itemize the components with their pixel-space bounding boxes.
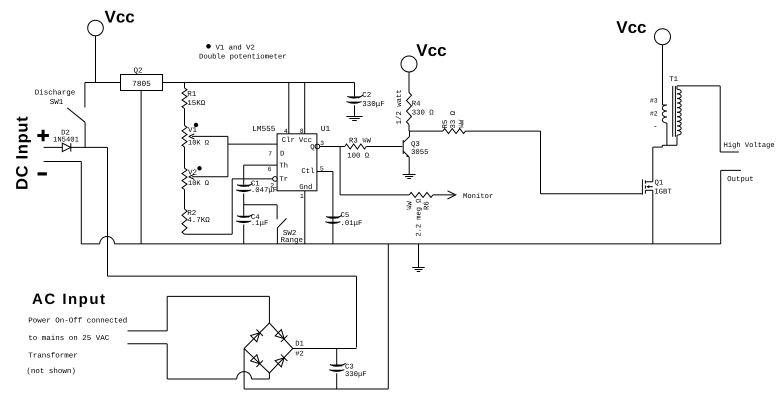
svg-text:High Voltage: High Voltage	[724, 141, 775, 150]
label pins Clr Vcc	[282, 136, 312, 145]
svg-text:8: 8	[300, 128, 304, 135]
label T1 pin 2	[650, 110, 658, 117]
wire V2 to R2	[184, 190, 186, 210]
svg-text:Output: Output	[727, 176, 754, 184]
pin 8 wire	[300, 83, 305, 135]
note mains	[28, 334, 110, 343]
wire DC- input	[44, 162, 82, 244]
transformer T1	[653, 76, 720, 147]
svg-text:Transformer: Transformer	[28, 352, 78, 361]
svg-text:330μF: 330μF	[345, 371, 367, 379]
resistor R3	[345, 137, 403, 160]
transistor Q1 IGBT	[642, 179, 672, 196]
svg-text:3: 3	[320, 140, 324, 147]
power terminal Vcc (middle)	[401, 41, 447, 93]
svg-text:R5: R5	[442, 120, 450, 129]
svg-text:Monitor: Monitor	[463, 192, 493, 201]
wire R1 to V1	[184, 109, 186, 126]
svg-text:#2: #2	[650, 110, 658, 117]
svg-text:100 Ω: 100 Ω	[347, 152, 370, 160]
pin 1 Gnd wire	[299, 183, 312, 244]
capacitor C3	[329, 349, 366, 390]
switch SW1	[35, 83, 85, 148]
wire Q1 source to rail	[652, 190, 654, 244]
note double potentiometer	[199, 44, 287, 62]
capacitor C2	[346, 83, 384, 116]
svg-text:D: D	[280, 151, 285, 159]
resistor R4	[407, 93, 435, 132]
svg-text:C5: C5	[341, 212, 350, 220]
wire R5 to Q1 gate	[541, 131, 643, 194]
label 33 ohm	[450, 110, 458, 128]
svg-text:5: 5	[320, 165, 324, 172]
svg-text:C2: C2	[362, 91, 371, 100]
switch SW2	[277, 218, 303, 245]
svg-text:(not shown): (not shown)	[26, 367, 76, 376]
potentiometer V1	[182, 123, 228, 147]
ground below Q3	[403, 175, 416, 179]
svg-text:Double potentiometer: Double potentiometer	[199, 53, 287, 62]
diode D2	[53, 130, 79, 152]
wire bottom return rail	[244, 388, 388, 390]
svg-text:¼W: ¼W	[407, 201, 415, 210]
wire DC+ return to bridge	[108, 276, 357, 347]
wire C1 to C4	[243, 194, 245, 216]
pin 4 wire	[284, 83, 289, 135]
svg-text:AC Input: AC Input	[32, 291, 106, 308]
ground on rail	[412, 244, 425, 272]
resistor R6	[340, 192, 433, 197]
svg-text:T1: T1	[669, 76, 678, 84]
wire T1 to Q1 drain	[652, 147, 654, 182]
wire top rail right segment	[163, 82, 355, 84]
monitor arrow	[433, 191, 493, 201]
power terminal Vcc (left)	[88, 8, 135, 83]
svg-text:7: 7	[268, 151, 272, 158]
pin 2 Tr bubble	[270, 176, 288, 189]
capacitor C1	[236, 181, 277, 195]
svg-text:.047μF: .047μF	[251, 187, 277, 195]
wire bridge left corner down	[243, 349, 245, 390]
power terminal Vcc (right)	[616, 18, 670, 105]
svg-text:Vcc: Vcc	[416, 41, 446, 60]
svg-text:SW1: SW1	[50, 98, 64, 107]
wire AC terminal lower	[128, 344, 270, 379]
wire V1 to V2	[184, 147, 186, 168]
wire top rail left segment	[85, 82, 121, 84]
svg-text:D1: D1	[295, 341, 304, 349]
label T1 pin 3	[650, 98, 658, 105]
resistor R1	[182, 83, 206, 109]
wire R2 bottom to Tr	[185, 179, 273, 234]
svg-text:Power On-Off connected: Power On-Off connected	[28, 317, 127, 326]
regulator Q2 7805	[121, 67, 163, 91]
ground below C2	[346, 117, 362, 121]
label quarter watt R5	[459, 119, 467, 128]
svg-text:33 Ω: 33 Ω	[450, 110, 458, 128]
svg-text:Q1: Q1	[655, 179, 664, 187]
capacitor C5	[325, 212, 362, 228]
svg-text:10K Ω: 10K Ω	[188, 139, 209, 147]
wire main ground rail	[81, 237, 720, 244]
wire 7805 ground pin	[140, 91, 142, 244]
svg-text:IGBT: IGBT	[654, 188, 672, 196]
svg-text:-: -	[653, 124, 658, 132]
svg-text:V2: V2	[188, 169, 197, 178]
svg-text:LM555: LM555	[252, 125, 276, 134]
resistor R2	[182, 209, 210, 234]
potentiometer V2	[182, 167, 228, 190]
wire rail to bottom return	[387, 244, 389, 389]
op-amp U1 LM555 body	[252, 125, 330, 191]
bridge diode top-right	[275, 329, 287, 341]
label quarter watt R6	[407, 201, 415, 210]
svg-text:15KΩ: 15KΩ	[187, 99, 206, 108]
capacitor C4	[236, 214, 268, 228]
bridge diode bottom-right	[275, 355, 287, 367]
svg-text:7805: 7805	[132, 80, 151, 89]
high voltage output	[720, 86, 774, 152]
svg-text:4: 4	[284, 128, 288, 135]
svg-text:¼W: ¼W	[459, 119, 467, 128]
wire DC+ input	[44, 146, 108, 148]
svg-text:330μF: 330μF	[362, 100, 385, 109]
wire R6 riser	[339, 147, 341, 195]
label - terminal	[38, 172, 47, 175]
pin 3 output Q	[310, 140, 344, 152]
note not shown	[26, 367, 76, 376]
svg-text:R3 ¼W: R3 ¼W	[349, 137, 372, 145]
svg-text:R6: R6	[423, 201, 431, 210]
wire bridge output	[293, 348, 357, 350]
wire Th to C1	[243, 165, 245, 185]
wire C4 to rail	[243, 225, 245, 244]
wire wiper bus	[227, 136, 229, 176]
note power on-off	[28, 317, 127, 326]
svg-text:R1: R1	[187, 91, 197, 99]
wire DC+ riser down	[107, 147, 109, 276]
wire SW2 branch	[244, 205, 277, 219]
svg-text:Th: Th	[279, 161, 288, 170]
pin 5 Ctl wire	[301, 165, 333, 244]
label T1 pin minus	[653, 124, 658, 132]
svg-text:3055: 3055	[411, 149, 429, 157]
wire AC terminal upper	[128, 296, 270, 331]
svg-text:1N5401: 1N5401	[53, 137, 79, 145]
bridge diode bottom-left	[250, 355, 262, 367]
label 1/2 watt	[395, 89, 404, 124]
svg-text:V1 and V2: V1 and V2	[216, 44, 255, 53]
bridge diode top-left	[250, 329, 262, 341]
transistor Q3	[403, 131, 428, 175]
output terminal	[721, 170, 754, 244]
svg-text:6: 6	[268, 166, 272, 173]
resistor R5	[409, 129, 541, 134]
label R6	[423, 201, 431, 210]
svg-text:Vcc: Vcc	[616, 18, 646, 37]
svg-text:Clr: Clr	[282, 136, 295, 145]
label DC Input	[14, 116, 32, 190]
svg-text:10K Ω: 10K Ω	[188, 180, 209, 188]
label R5	[442, 120, 450, 129]
svg-text:1: 1	[300, 193, 304, 200]
svg-text:Discharge: Discharge	[35, 89, 76, 98]
pin 6 Th wire	[244, 161, 288, 173]
bridge rectifier D1 frame	[244, 323, 304, 373]
svg-text:1/2 watt: 1/2 watt	[395, 89, 404, 124]
svg-text:U1: U1	[321, 125, 331, 134]
svg-text:#2: #2	[295, 351, 304, 359]
svg-text:Gnd: Gnd	[299, 183, 312, 192]
note transformer	[28, 352, 78, 361]
svg-text:.01μF: .01μF	[341, 220, 363, 228]
label + terminal	[37, 130, 49, 142]
svg-text:Vcc: Vcc	[105, 8, 135, 27]
svg-text:R4: R4	[412, 100, 421, 108]
svg-text:#3: #3	[650, 98, 658, 105]
svg-text:to mains on 25 VAC: to mains on 25 VAC	[28, 334, 110, 343]
svg-text:Q: Q	[310, 144, 315, 152]
pin 7 D wire	[228, 144, 285, 158]
svg-text:Q2: Q2	[133, 67, 142, 76]
svg-text:Tr: Tr	[279, 176, 288, 184]
svg-text:4.7KΩ: 4.7KΩ	[187, 216, 210, 225]
svg-text:V1: V1	[188, 127, 198, 135]
svg-text:DC Input: DC Input	[14, 116, 32, 190]
svg-text:.1μF: .1μF	[251, 220, 269, 228]
svg-text:330 Ω: 330 Ω	[412, 109, 435, 117]
svg-text:2.2 meg Ω: 2.2 meg Ω	[415, 199, 423, 237]
label 2.2 meg ohm	[415, 199, 423, 237]
svg-text:Ctl: Ctl	[301, 167, 314, 176]
label AC Input	[32, 291, 106, 308]
